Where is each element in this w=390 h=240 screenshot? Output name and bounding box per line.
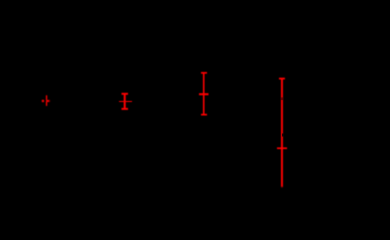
capacitor C3 (tall, with end caps) [201,72,207,116]
node C (crossbar on W1) [277,147,287,149]
wire crossing (dim spot on W1) [281,97,283,100]
node A (junction dot) [42,100,44,102]
node B (crossbar on C3) [199,93,209,95]
wire through C2 node [119,101,132,102]
capacitor C1 (highlighted, with lead stub) [46,95,51,106]
wire crossing (dark notch on W1) [282,134,284,137]
wire W1 (long highlighted vertical net) [279,78,285,189]
capacitor C2 (plates and stem) [122,93,129,110]
